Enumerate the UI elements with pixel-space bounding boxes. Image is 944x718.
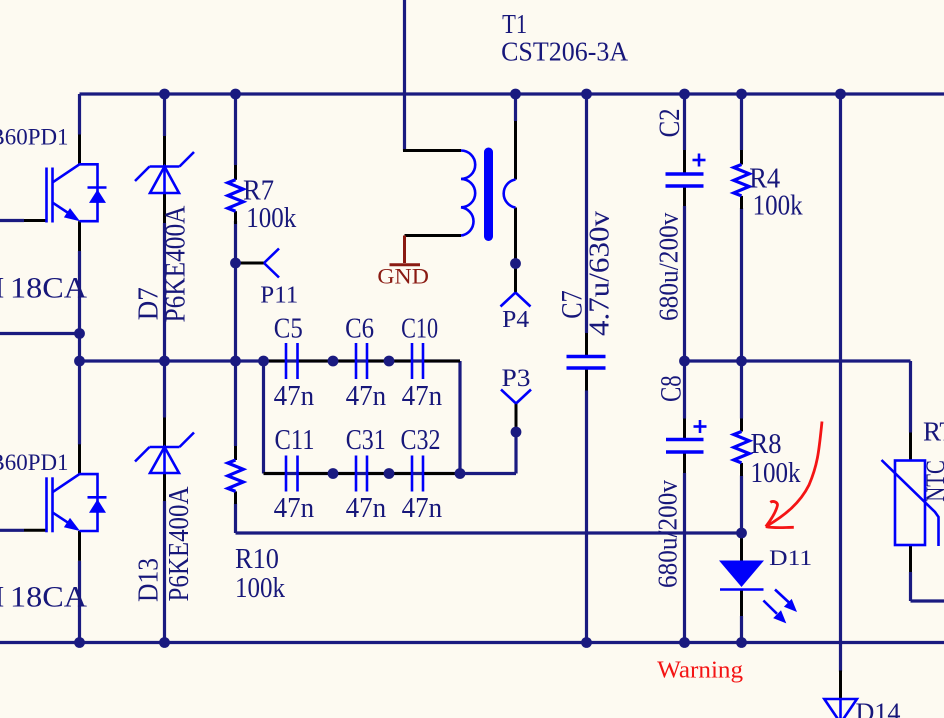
svg-text:C10: C10 <box>401 313 438 344</box>
svg-text:Warning: Warning <box>657 658 743 684</box>
svg-text:47n: 47n <box>402 493 443 524</box>
svg-text:CST206-3A: CST206-3A <box>501 36 628 66</box>
svg-text:C32: C32 <box>401 425 441 456</box>
svg-text:C2: C2 <box>653 108 686 137</box>
svg-text:C31: C31 <box>346 425 386 456</box>
svg-text:R7: R7 <box>243 175 274 207</box>
svg-text:18CA: 18CA <box>10 272 87 305</box>
svg-text:P3: P3 <box>502 365 531 392</box>
svg-text:C5: C5 <box>274 313 303 344</box>
svg-text:P6KE400A: P6KE400A <box>160 205 192 322</box>
svg-text:NTC: NTC <box>920 460 944 502</box>
svg-text:P6KE400A: P6KE400A <box>163 486 195 601</box>
svg-text:100k: 100k <box>753 191 803 222</box>
svg-text:D11: D11 <box>769 545 812 570</box>
svg-text:100k: 100k <box>246 203 296 234</box>
svg-text:T1: T1 <box>502 9 527 39</box>
svg-text:R8: R8 <box>751 428 782 460</box>
svg-text:C11: C11 <box>275 425 315 456</box>
svg-text:RT1: RT1 <box>923 417 944 447</box>
svg-text:47n: 47n <box>402 381 443 412</box>
svg-text:B60PD1: B60PD1 <box>0 125 69 150</box>
svg-text:B60PD1: B60PD1 <box>0 450 69 475</box>
svg-text:C6: C6 <box>345 313 374 344</box>
svg-text:H: H <box>0 580 4 613</box>
svg-text:P11: P11 <box>260 283 298 309</box>
svg-text:4.7u/630v: 4.7u/630v <box>584 210 615 336</box>
svg-text:18CA: 18CA <box>10 580 87 613</box>
svg-text:680u/200v: 680u/200v <box>653 212 684 321</box>
svg-text:C8: C8 <box>654 375 687 402</box>
svg-text:47n: 47n <box>274 381 315 412</box>
svg-text:P4: P4 <box>502 307 529 333</box>
svg-text:47n: 47n <box>274 493 315 524</box>
svg-text:100k: 100k <box>235 573 285 604</box>
svg-text:680u/200v: 680u/200v <box>652 480 683 588</box>
svg-text:47n: 47n <box>346 381 387 412</box>
svg-text:47n: 47n <box>346 493 387 524</box>
svg-text:H: H <box>0 272 4 305</box>
svg-text:R4: R4 <box>749 162 780 194</box>
svg-text:D13: D13 <box>133 558 164 602</box>
svg-text:D14: D14 <box>856 698 901 718</box>
svg-text:R10: R10 <box>235 543 279 575</box>
svg-text:100k: 100k <box>751 458 801 489</box>
svg-text:GND: GND <box>377 264 429 289</box>
